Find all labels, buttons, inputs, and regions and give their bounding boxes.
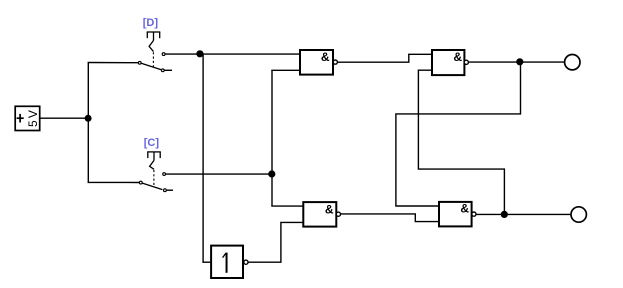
wire C node to gate U1 input B: [271, 69, 300, 71]
inverter U5 box: [211, 246, 243, 278]
wire C node to gate U3 input A: [271, 205, 303, 207]
switch C lower contact stub: [166, 189, 173, 191]
wire left bus vertical: [87, 63, 89, 183]
inverter U5 output bubble: [244, 260, 248, 264]
svg-text:[D]: [D]: [143, 17, 159, 29]
svg-text:[C]: [C]: [144, 137, 160, 149]
wire into inverter input: [202, 261, 211, 263]
switch D lower contact: [161, 69, 164, 72]
NAND gate U4 box: [439, 202, 472, 227]
NAND gate U2 output bubble: [464, 60, 468, 64]
junction node at battery/bus: [85, 115, 92, 122]
output indicator O2: [571, 207, 586, 222]
battery V1 5V: [15, 106, 40, 130]
output indicator O1: [565, 55, 580, 70]
wire switch D to gate U1 input A: [165, 53, 300, 55]
svg-text:5V: 5V: [26, 108, 40, 127]
switch D link (dashed): [152, 52, 154, 66]
wire Q feedback down: [396, 62, 521, 206]
wire U1 output to U2 input A: [338, 54, 433, 62]
switch C actuator: [147, 152, 161, 169]
NAND gate U1 output bubble: [333, 60, 337, 64]
node Q junction: [516, 58, 523, 65]
svg-text:&: &: [453, 50, 462, 64]
wire U5 output to U3 input B: [248, 222, 303, 262]
wire D node down to inverter: [202, 54, 204, 262]
switch D upper contact: [162, 53, 165, 56]
wire C node vertical: [271, 70, 273, 206]
wire switch C to C node: [166, 173, 272, 175]
wire bus to switch C: [88, 181, 140, 183]
switch C lever: [142, 183, 162, 190]
svg-text:&: &: [321, 50, 330, 64]
NAND gate U2 box: [432, 50, 464, 75]
switch D lever: [141, 63, 161, 69]
NAND gate U4 output bubble: [472, 212, 476, 216]
wire Qbar feedback up to U2 input B: [418, 70, 504, 214]
node D junction: [196, 50, 203, 57]
wire U2 output to output O1 (Q): [468, 61, 564, 63]
switch C upper contact: [163, 173, 166, 176]
node C junction: [268, 170, 275, 177]
switch C lower contact: [164, 189, 167, 192]
switch D lower contact stub: [164, 69, 172, 71]
svg-text:&: &: [460, 201, 469, 215]
NAND gate U3 output bubble: [336, 212, 340, 216]
wire battery to bus: [40, 117, 89, 119]
inverter U5 symbol 1: [223, 253, 227, 273]
wire U3 output to U4 input B: [341, 214, 440, 222]
switch C link (dashed): [153, 170, 155, 187]
wire U4 output to output O2 (Qbar): [476, 213, 571, 215]
node Qbar junction: [501, 211, 508, 218]
switch D actuator: [147, 32, 161, 52]
NAND gate U1 box: [300, 50, 333, 75]
switch D common contact: [138, 61, 141, 64]
svg-text:&: &: [325, 203, 334, 217]
NAND gate U3 box: [303, 202, 336, 227]
switch C common contact: [139, 181, 142, 184]
wire bus to switch D: [88, 62, 139, 64]
